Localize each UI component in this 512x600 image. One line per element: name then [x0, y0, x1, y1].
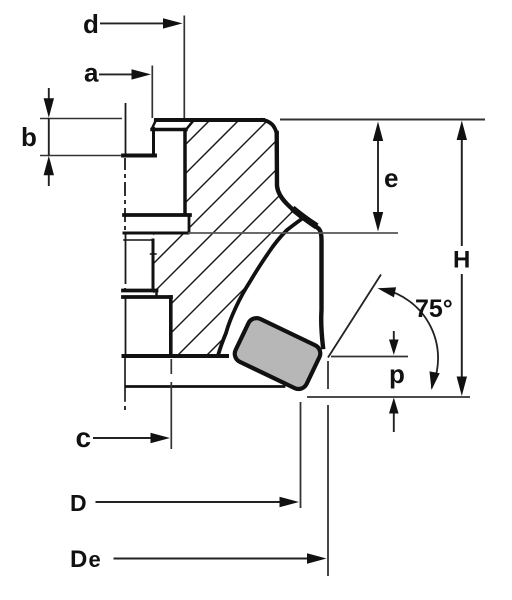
svg-text:75°: 75°	[415, 295, 453, 323]
svg-text:c: c	[76, 422, 92, 453]
svg-text:d: d	[83, 9, 99, 39]
svg-text:D: D	[70, 546, 87, 573]
svg-text:e: e	[384, 163, 398, 193]
svg-text:e: e	[89, 547, 101, 572]
svg-text:b: b	[21, 122, 37, 152]
svg-text:H: H	[453, 247, 470, 274]
svg-text:D: D	[70, 490, 87, 516]
svg-text:a: a	[84, 58, 99, 88]
svg-text:p: p	[389, 359, 405, 389]
